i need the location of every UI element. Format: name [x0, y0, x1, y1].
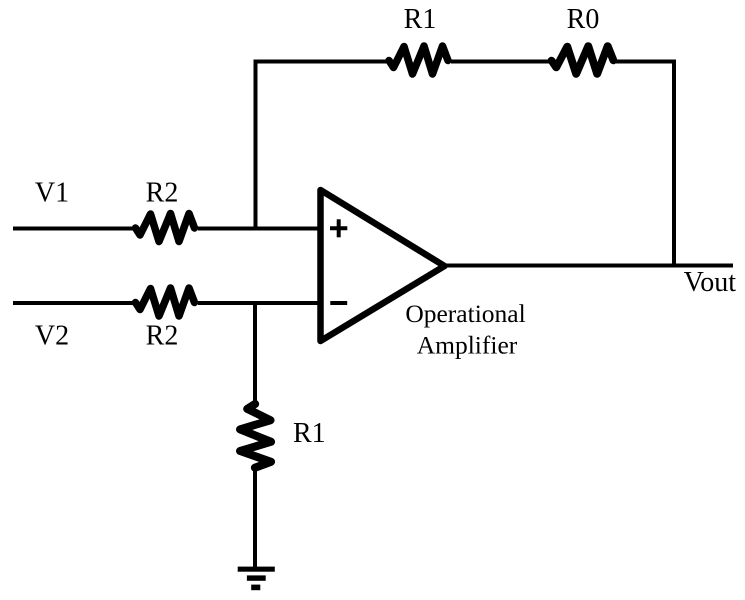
pin - (inverting input): [330, 301, 347, 305]
resistor R2 (V2 input): [134, 288, 198, 316]
svg-text:V1: V1: [35, 178, 69, 209]
svg-text:R1: R1: [293, 418, 326, 449]
resistor R0 (feedback, top right): [550, 46, 616, 74]
wire top feedback horizontal: [256, 62, 675, 266]
wire V2 input: [13, 301, 318, 305]
resistor R1 (feedback, top): [388, 46, 451, 74]
svg-text:V2: V2: [35, 321, 69, 352]
svg-text:Operational: Operational: [405, 299, 525, 328]
svg-text:R2: R2: [146, 321, 179, 352]
svg-text:Vout: Vout: [684, 267, 737, 298]
op-amp U1: [321, 190, 445, 341]
ground: [238, 567, 275, 591]
wire output: [445, 264, 734, 268]
svg-text:R0: R0: [567, 4, 600, 35]
svg-text:Amplifier: Amplifier: [417, 331, 518, 360]
resistor R2 (V1 input): [134, 214, 198, 242]
wire V1 input: [13, 227, 318, 231]
pin + (non-inverting input): [330, 219, 347, 237]
svg-text:R1: R1: [404, 4, 437, 35]
svg-text:R2: R2: [146, 178, 179, 209]
wire inverting node vertical (down from V2 wire): [253, 303, 257, 406]
wire to ground: [253, 466, 257, 568]
resistor R1 (vertical, to ground): [240, 404, 271, 468]
